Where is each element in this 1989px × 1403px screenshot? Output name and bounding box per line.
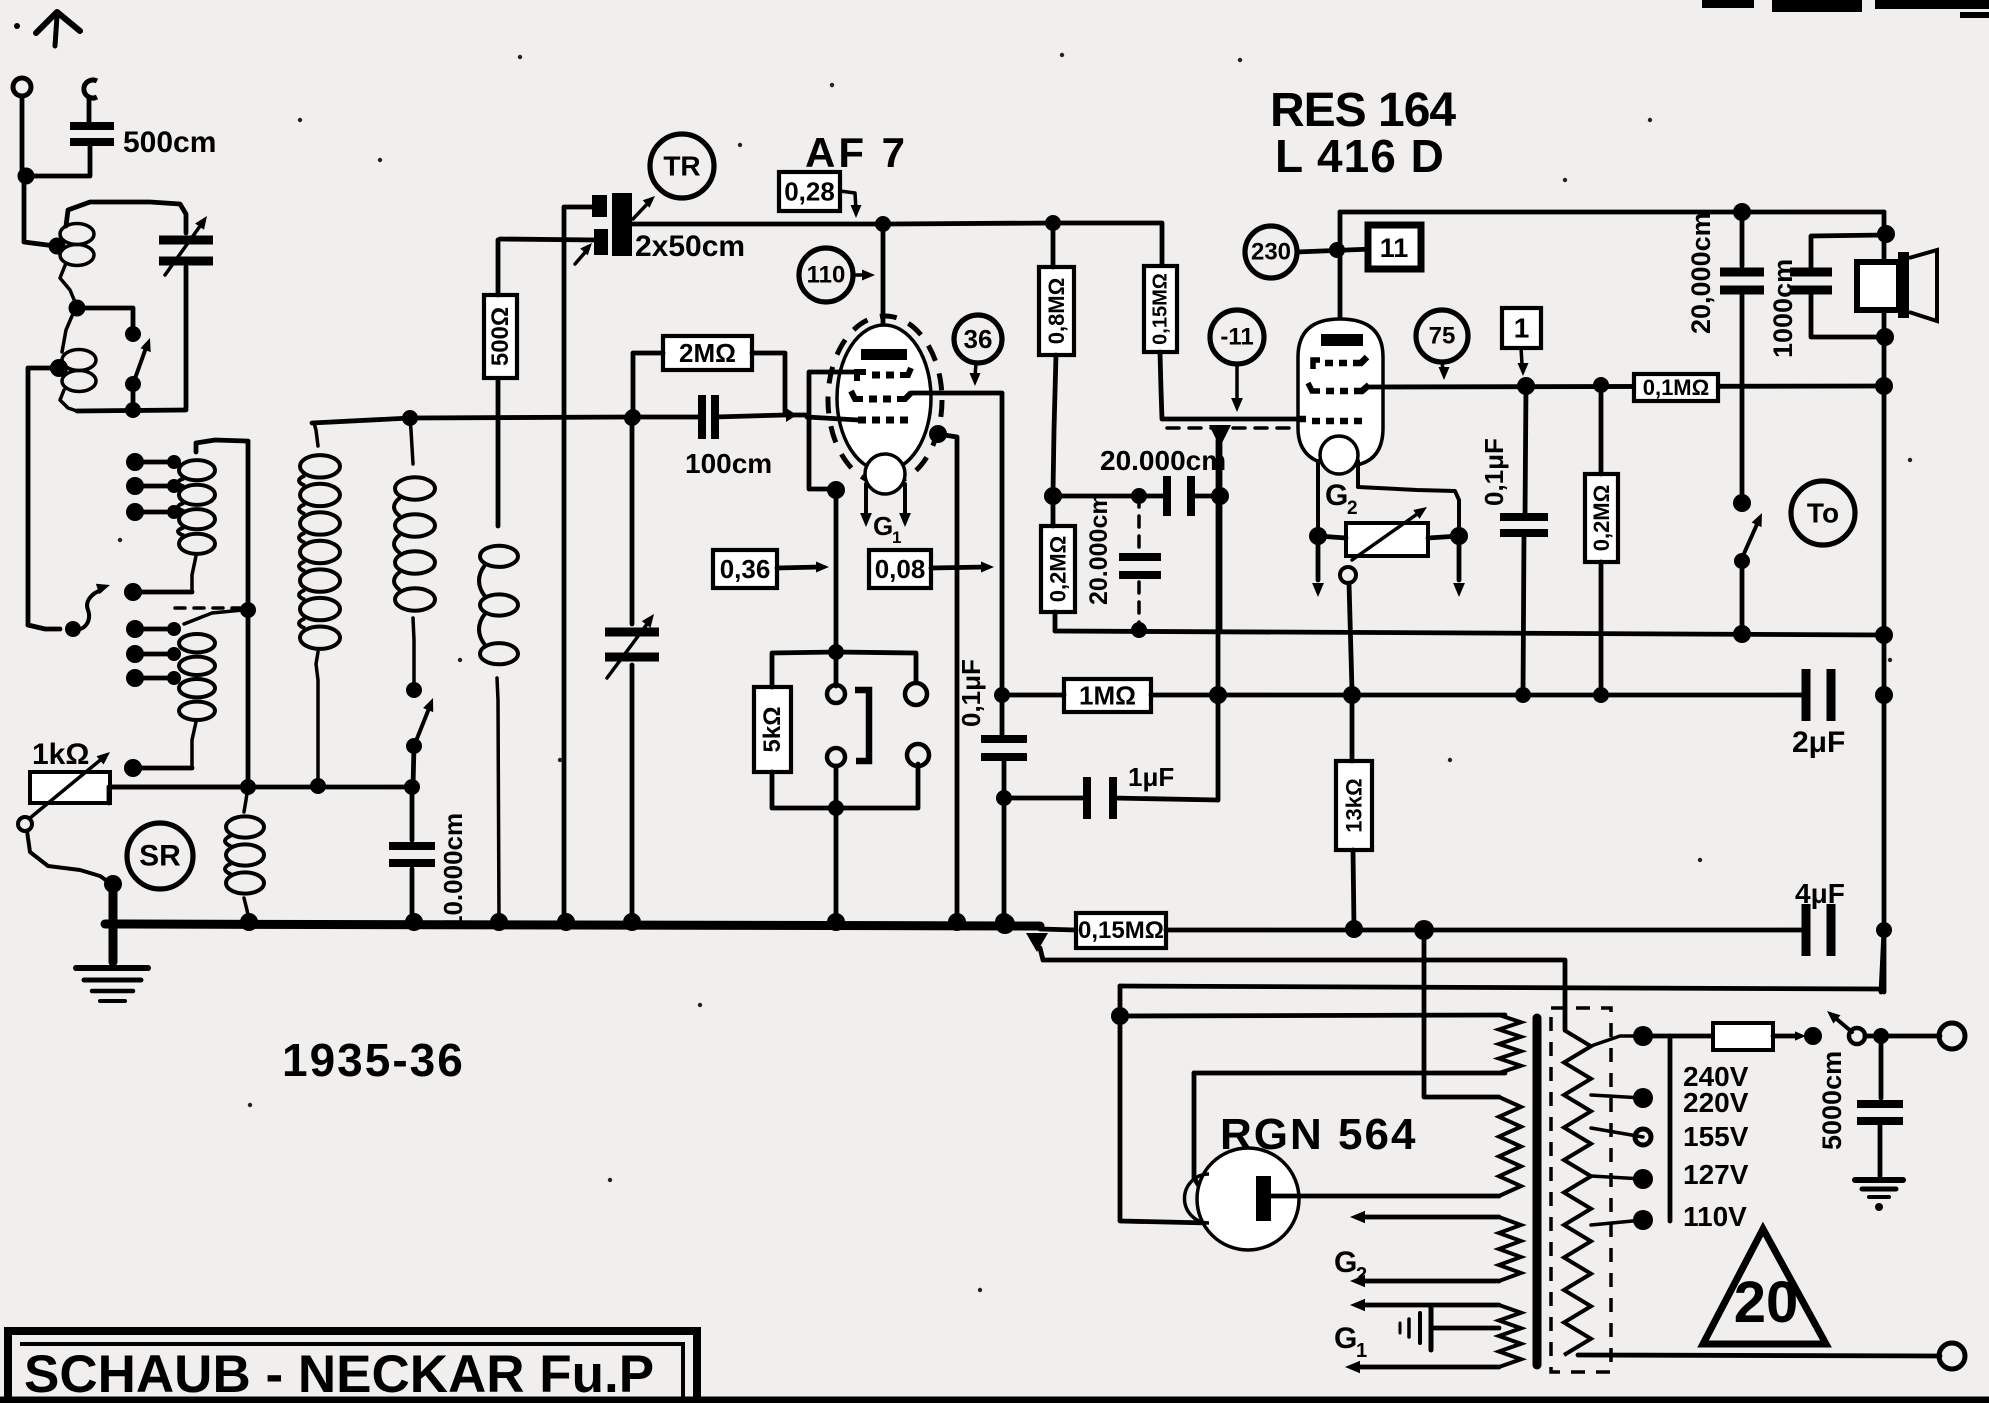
circle label To	[1791, 481, 1855, 545]
tap 155V	[1591, 1128, 1643, 1137]
capacitor 2µF	[1802, 669, 1811, 721]
arrowhead	[1345, 1361, 1360, 1374]
svg-text:20.000cm: 20.000cm	[1100, 445, 1226, 476]
wire	[777, 567, 820, 568]
wire	[1316, 536, 1321, 580]
node 0,1uF bottom	[1515, 687, 1531, 703]
fuse	[1713, 1023, 1773, 1050]
RGN564 filament bar	[1256, 1176, 1271, 1221]
resistor 500Ω	[484, 295, 517, 378]
wire	[633, 201, 650, 219]
wire coil A-B link	[60, 263, 75, 302]
circle label SR	[127, 823, 193, 889]
scan artifacts top right	[1702, 0, 1754, 8]
wire	[1599, 562, 1604, 695]
wire L2 bottom to varcap	[77, 410, 186, 411]
wire	[62, 316, 72, 352]
node 1uF left	[996, 790, 1012, 806]
node 0,2M2 top	[1593, 377, 1609, 393]
circle label 36	[954, 315, 1002, 363]
tap 240V	[1591, 1036, 1643, 1046]
junction	[1875, 626, 1893, 644]
svg-text:2: 2	[1356, 1264, 1367, 1286]
node L4 top on riser	[240, 602, 256, 618]
node tube right	[929, 425, 947, 443]
wire x1218	[1216, 440, 1221, 800]
wire	[1352, 512, 1420, 560]
dashed AVC line	[1167, 426, 1296, 430]
variable capacitor tuning 1	[159, 236, 213, 245]
wire RGN anode down	[1194, 1073, 1199, 1186]
wire x957 down	[938, 434, 957, 922]
wire pot to node	[109, 787, 248, 803]
svg-text:20: 20	[1734, 1270, 1799, 1335]
wire right rail x1884	[1882, 212, 1887, 992]
node coil L2 tap	[50, 359, 68, 377]
svg-text:0,1μF: 0,1μF	[1479, 438, 1509, 506]
wire	[1002, 693, 1064, 698]
dashed gang link	[175, 606, 242, 610]
wire	[1429, 1306, 1434, 1350]
svg-text:500Ω: 500Ω	[487, 307, 514, 366]
node dashed cap bottom	[1131, 622, 1147, 638]
wire wiper down	[1349, 583, 1352, 690]
arrowhead	[1413, 507, 1427, 519]
coil L7	[395, 477, 435, 499]
wire	[975, 363, 976, 376]
wire 2M left	[633, 353, 663, 415]
node pot left	[1309, 527, 1327, 545]
junction	[126, 620, 144, 638]
svg-text:0,28: 0,28	[784, 177, 835, 207]
switch S4 left	[1804, 1027, 1822, 1045]
wire output rail y386	[1369, 386, 1884, 387]
node spk rail	[1733, 203, 1751, 221]
arrowhead	[816, 562, 829, 573]
wire	[1407, 1319, 1411, 1337]
bus junction x499	[490, 913, 508, 931]
wire y224 to x1053	[883, 223, 1053, 224]
junction	[126, 503, 144, 521]
wire anode RGN	[1194, 1071, 1505, 1076]
wire	[1862, 1187, 1896, 1192]
node 0,1uF top	[1517, 377, 1535, 395]
wire	[1002, 757, 1007, 922]
wire	[1350, 695, 1355, 761]
wire	[135, 627, 172, 632]
arrowhead	[1827, 1011, 1841, 1024]
wire	[1523, 533, 1524, 695]
wire	[135, 484, 172, 489]
coil L2 antenna secondary	[62, 350, 96, 371]
tap dot 220V	[1633, 1088, 1653, 1108]
RES164 cathode dome	[1320, 436, 1358, 474]
wire	[1740, 290, 1745, 498]
wire to 5000cm	[1879, 1036, 1884, 1098]
arrowhead	[970, 373, 981, 386]
tap 127V	[1591, 1176, 1643, 1179]
wire	[1878, 1121, 1883, 1176]
ground stem	[109, 884, 118, 962]
AF7 cathode lead right	[903, 484, 907, 514]
wire 0,8M down	[1053, 355, 1056, 492]
AF7 cathode dome	[865, 454, 905, 494]
wire	[135, 460, 172, 465]
junction	[167, 622, 181, 636]
node S2/cap	[404, 779, 420, 795]
wire	[1053, 612, 1058, 631]
wire G1 top	[1360, 1303, 1499, 1308]
wire riser x564	[562, 208, 567, 922]
svg-text:0,08: 0,08	[875, 554, 926, 584]
svg-text:220V: 220V	[1683, 1087, 1749, 1118]
arrowhead	[642, 614, 654, 628]
wire L4 bottom	[192, 722, 196, 768]
wire to switch S1	[77, 308, 133, 330]
arrowhead	[423, 698, 433, 712]
junction	[126, 669, 144, 687]
wire	[836, 764, 918, 808]
wire	[60, 390, 77, 411]
selector bar	[1668, 1036, 1673, 1221]
svg-text:SCHAUB - NECKAR Fu.P: SCHAUB - NECKAR Fu.P	[24, 1345, 654, 1403]
switch S3 bottom	[1734, 553, 1750, 569]
wire 1000cm top	[1811, 235, 1884, 272]
selector wavy arm	[73, 590, 102, 629]
svg-text:2MΩ: 2MΩ	[679, 338, 736, 368]
wire	[1742, 522, 1758, 558]
potentiometer 1kΩ	[30, 772, 110, 803]
wire	[1773, 1034, 1799, 1039]
bus junction x957	[948, 913, 966, 931]
arrowhead	[1350, 1299, 1365, 1312]
coil L6 tall oscillator	[300, 455, 340, 477]
junction	[167, 505, 181, 519]
speaker	[1857, 262, 1899, 310]
RES164 anode plate	[1321, 334, 1363, 346]
wire	[1869, 1195, 1889, 1199]
wire L6 bottom	[316, 652, 318, 786]
junction	[167, 455, 181, 469]
node anode2 top	[1329, 242, 1345, 258]
arrowhead	[792, 414, 793, 417]
arrowhead	[96, 584, 110, 594]
junction	[126, 453, 144, 471]
antenna symbol	[36, 12, 80, 33]
svg-text:20,000cm: 20,000cm	[1686, 212, 1716, 334]
bus junction x632	[623, 913, 641, 931]
svg-text:SR: SR	[139, 840, 181, 873]
wire	[1740, 561, 1745, 631]
wire anode2 lead	[1338, 212, 1343, 336]
jack contact BL	[827, 748, 845, 766]
wire cap to junction	[26, 146, 90, 176]
svg-text:1μF: 1μF	[1128, 762, 1174, 792]
wire	[314, 423, 318, 446]
wire main top y224	[628, 222, 880, 227]
wire	[92, 989, 133, 994]
svg-text:500cm: 500cm	[123, 126, 216, 159]
RES164 G2 lead	[1358, 461, 1459, 532]
bracket wire	[809, 372, 858, 489]
wire anode lead	[881, 224, 886, 345]
wire	[1004, 796, 1087, 801]
winding W3 G2	[1499, 1217, 1521, 1281]
wire	[1855, 1177, 1903, 1183]
fusebox triangle 20	[1703, 1229, 1826, 1344]
svg-text:TR: TR	[663, 151, 700, 182]
arrowhead	[1795, 1031, 1806, 1040]
wire x1424 down	[1424, 930, 1499, 1097]
wire	[1318, 536, 1346, 538]
arrowhead	[851, 205, 862, 218]
svg-text:155V: 155V	[1683, 1121, 1749, 1152]
node dashed cap top	[1131, 488, 1147, 504]
arrowhead	[1350, 1211, 1365, 1224]
svg-text:2: 2	[1347, 498, 1358, 519]
wire	[836, 652, 916, 682]
wire	[414, 706, 430, 746]
wire	[133, 590, 192, 595]
selector pivot	[65, 621, 81, 637]
junction	[167, 671, 181, 685]
wire riser x248	[246, 441, 251, 787]
coil L5 SR	[226, 816, 264, 837]
terminal mains N	[1939, 1343, 1965, 1369]
node L7 top	[402, 410, 418, 426]
wire	[1525, 386, 1526, 517]
wire	[607, 620, 650, 678]
bus junction x414	[405, 913, 423, 931]
svg-text:10.000cm: 10.000cm	[438, 813, 468, 930]
wire x836 down	[834, 490, 839, 686]
coil L1 antenna primary	[60, 224, 94, 245]
jack contact TR	[905, 683, 927, 705]
wire	[410, 787, 415, 840]
tap 220V	[1591, 1095, 1643, 1098]
capacitor 1µF	[1083, 777, 1091, 819]
winding secondary	[1564, 1030, 1591, 1355]
arrowhead	[1439, 367, 1450, 380]
switch S2 top contact	[406, 682, 422, 698]
svg-text:110: 110	[807, 262, 846, 289]
junction	[1875, 1203, 1883, 1211]
wire 5k top	[772, 652, 836, 687]
wire 20000cm spk top	[1740, 212, 1745, 266]
tap dot 127V	[1633, 1169, 1653, 1189]
wire	[1428, 536, 1459, 538]
svg-text:0,15MΩ: 0,15MΩ	[1078, 917, 1164, 944]
svg-text:0,15MΩ: 0,15MΩ	[1150, 273, 1172, 345]
wire bottom to terminal	[1578, 1355, 1940, 1356]
wire	[575, 249, 588, 264]
wire junction to coil A tap	[24, 176, 55, 246]
transformer shield (dashed)	[1551, 1008, 1611, 1372]
arrow down right	[1453, 583, 1465, 597]
wire 5k bottom	[772, 772, 836, 808]
node 4uF right	[1876, 922, 1892, 938]
coil L4 band coil lower	[179, 634, 215, 652]
wire	[1434, 1326, 1499, 1331]
wire 500ohm to L8	[496, 380, 501, 526]
circle label 75	[1416, 310, 1468, 362]
arrowhead	[580, 243, 592, 255]
tap 110V	[1591, 1220, 1643, 1225]
wire	[1191, 494, 1220, 499]
wire	[100, 999, 125, 1003]
svg-text:2μF: 2μF	[1792, 726, 1845, 759]
node mains	[1873, 1028, 1889, 1044]
resistor 1MΩ	[1064, 679, 1151, 712]
arrowhead	[899, 513, 911, 527]
capacitor 100cm	[698, 395, 706, 439]
arrowhead	[195, 216, 207, 230]
node x1220 y496	[1211, 487, 1229, 505]
bus junction x249	[240, 913, 258, 931]
wire y787	[109, 785, 412, 790]
resistor 13kΩ	[1336, 761, 1372, 850]
wire	[500, 239, 598, 240]
tap dot 110V	[1633, 1210, 1653, 1230]
contact L3 bottom	[124, 583, 142, 601]
junction	[126, 645, 144, 663]
wire	[1353, 850, 1354, 928]
node 0,2M2 bottom	[1593, 687, 1609, 703]
contact L4 bottom	[124, 759, 142, 777]
wire tap to fuse	[1643, 1034, 1715, 1039]
wire L2 tap down	[28, 368, 59, 625]
svg-text:5000cm: 5000cm	[1817, 1051, 1847, 1150]
svg-text:AF 7: AF 7	[805, 129, 908, 176]
tap dot 240V	[1633, 1026, 1653, 1046]
capacitor 10000cm	[389, 842, 435, 850]
wire to selector	[28, 625, 60, 629]
bus end node	[995, 914, 1015, 934]
node switch bottom junction	[125, 402, 141, 418]
svg-text:20.000cm: 20.000cm	[1085, 492, 1113, 605]
svg-text:1935-36: 1935-36	[282, 1034, 465, 1086]
wire x1220 to rail	[1218, 496, 1223, 631]
wire L4 top	[184, 610, 243, 624]
circle label 230	[1245, 226, 1297, 278]
switch S1 bottom contact	[125, 376, 141, 392]
title box SCHAUB-NECKAR	[8, 1331, 697, 1403]
wire 230 to 11	[1297, 249, 1372, 252]
wire x1220 upper	[1218, 440, 1223, 492]
svg-text:0,1MΩ: 0,1MΩ	[1643, 375, 1710, 400]
svg-text:L 416 D: L 416 D	[1275, 130, 1445, 182]
wire screen to x1002	[911, 393, 1002, 688]
wire	[1113, 798, 1218, 800]
AF7 grid 3 row	[858, 417, 908, 424]
pot2 wiper	[1340, 567, 1356, 583]
wire	[1235, 364, 1239, 400]
node 1M left	[994, 687, 1010, 703]
label box 0,08	[869, 550, 931, 588]
svg-text:5kΩ: 5kΩ	[759, 707, 786, 753]
wire varcap down	[184, 267, 189, 408]
svg-text:4μF: 4μF	[1795, 878, 1845, 909]
arrowhead	[862, 270, 875, 281]
resistor 2MΩ	[663, 336, 752, 370]
capacitor 0,1µF output	[1500, 513, 1548, 521]
svg-text:127V: 127V	[1683, 1159, 1749, 1190]
wire filament to winding	[1271, 1194, 1499, 1199]
svg-text:-11: -11	[1220, 324, 1253, 351]
node x1218 y695	[1209, 686, 1227, 704]
wire 0,15M to grid	[1160, 352, 1296, 419]
speckles	[518, 55, 522, 59]
node coil A tap	[49, 238, 66, 255]
node y418/x632	[624, 410, 640, 426]
node screen feed	[1044, 487, 1062, 505]
arrowhead	[981, 562, 994, 573]
circle label 110	[799, 248, 853, 302]
junction	[167, 647, 181, 661]
wire top rail y212	[1340, 210, 1884, 215]
svg-text:0,8MΩ: 0,8MΩ	[1044, 278, 1069, 345]
svg-text:0,1μF: 0,1μF	[956, 659, 986, 727]
capacitor 20000cm padding (dashed)	[1119, 553, 1161, 561]
node jack top	[828, 644, 844, 660]
wire x836 lower	[834, 766, 839, 922]
circle label -11	[1210, 310, 1264, 364]
wire	[564, 205, 598, 210]
node cathode bias	[827, 481, 845, 499]
arrowhead	[643, 196, 655, 208]
wire trimmer to 500ohm	[496, 240, 501, 295]
bus junction x1004	[995, 913, 1013, 931]
svg-text:1MΩ: 1MΩ	[1079, 681, 1136, 711]
node x1424 top	[1414, 920, 1434, 940]
svg-text:36: 36	[964, 324, 993, 354]
arrowhead	[140, 338, 150, 352]
tube RGN564	[1197, 1148, 1299, 1250]
arrowhead	[97, 752, 111, 765]
capacitor 5000cm	[1857, 1100, 1903, 1108]
wire varcap2 top	[630, 418, 635, 624]
capacitor 20000cm coupling	[1163, 476, 1171, 516]
wire C to cap	[87, 98, 92, 123]
pot wiper terminal	[18, 817, 32, 831]
wire L7 to switch	[413, 618, 414, 686]
wire y988	[1120, 986, 1881, 989]
RES164 grid row1	[1313, 360, 1320, 369]
wire	[1418, 1313, 1422, 1343]
switch S2 bottom contact	[406, 738, 422, 754]
resistor 0,1MΩ	[1634, 374, 1718, 401]
resistor 0,8MΩ	[1039, 267, 1074, 355]
svg-text:13kΩ: 13kΩ	[1342, 778, 1367, 832]
svg-text:G: G	[1334, 1246, 1357, 1279]
node coil link	[69, 300, 86, 317]
RES164 cathode left	[1316, 461, 1320, 532]
wire	[1599, 385, 1604, 474]
wire grid3 feed	[807, 417, 858, 420]
svg-text:0,36: 0,36	[720, 554, 771, 584]
wire y695 rail	[1151, 693, 1806, 698]
junction	[126, 477, 144, 495]
wire	[1521, 348, 1522, 364]
wire	[1040, 929, 1076, 930]
wire row y418	[312, 417, 630, 423]
arrowhead	[1752, 513, 1762, 527]
wire	[633, 415, 699, 420]
wire varcap2 bottom	[630, 665, 635, 922]
node ground stem	[104, 875, 122, 893]
AF7 cathode lead left	[864, 484, 868, 514]
wire	[1399, 1323, 1402, 1333]
